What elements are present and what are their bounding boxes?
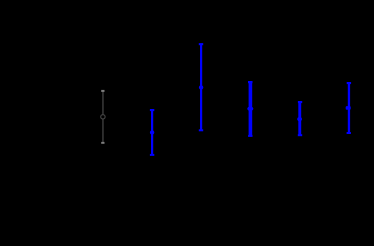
filled marker (wide) [247,107,253,111]
bottom cap [150,154,154,156]
top cap [248,81,253,83]
bottom cap [199,129,203,131]
top cap [199,43,203,45]
blue errorbar point 3 (double/overlapped) [247,81,253,137]
blue errorbar point 4 [297,101,302,136]
blue vertical error line [151,110,153,155]
blue vertical error line [200,44,202,131]
filled circle marker [199,85,203,89]
top cap [347,82,351,84]
bottom cap [298,134,302,136]
bottom cap [347,132,351,134]
gray bottom cap [101,142,104,144]
blue errorbar point 2 [199,43,204,131]
blue vertical error line [348,83,350,133]
blue vertical error line [298,102,301,135]
blue errorbar point 5 [346,82,351,134]
blue errorbar point 1 [150,109,154,156]
wire: gray vertical error line [102,91,104,144]
filled marker (square-ish) [346,106,351,110]
gray top cap [101,90,104,92]
top cap [298,101,302,103]
gray errorbar series point 1 [101,90,105,144]
filled circle marker [150,130,154,134]
top cap [150,109,154,111]
open circle marker [101,115,105,119]
filled marker (wide) [297,117,302,121]
blue vertical error line [249,82,253,136]
bottom cap [248,135,252,137]
